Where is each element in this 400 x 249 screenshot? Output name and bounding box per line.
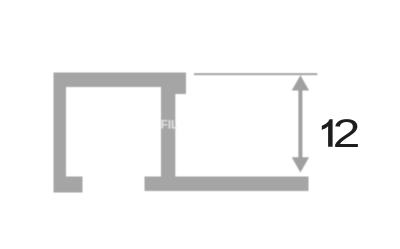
svg-text:FIL: FIL [161,119,178,131]
svg-text:2: 2 [333,112,361,156]
profile top bar [54,73,187,88]
dimension extension line [194,73,317,75]
profile stem [161,87,175,177]
dimension arrow shaft [298,88,302,159]
profile left wall [54,73,67,193]
profile left foot [54,177,83,193]
dimension arrowhead top [292,75,309,90]
profile top bar lip [161,87,186,94]
profile bottom base [145,177,309,192]
dimension label digit 1 [322,119,333,147]
dimension arrowhead bottom [292,157,309,172]
